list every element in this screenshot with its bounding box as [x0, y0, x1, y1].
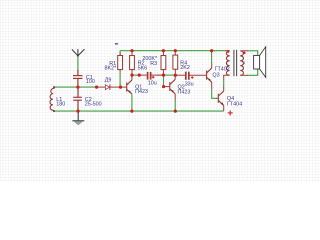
svg-text:1: 1: [243, 61, 245, 65]
svg-text:П423: П423: [135, 89, 148, 95]
svg-text:Д9: Д9: [105, 78, 112, 84]
svg-text:25-500: 25-500: [85, 101, 102, 107]
svg-text:5K6: 5K6: [138, 65, 148, 71]
svg-text:10u: 10u: [148, 81, 157, 87]
svg-text:1: 1: [226, 61, 228, 65]
svg-text:R3: R3: [150, 61, 157, 67]
svg-text:ГТ404: ГТ404: [227, 101, 242, 107]
svg-text:2K2: 2K2: [180, 65, 190, 71]
svg-text:33u: 33u: [185, 81, 194, 87]
svg-text:180: 180: [56, 102, 65, 108]
svg-text:П423: П423: [178, 90, 191, 96]
svg-text:Q3: Q3: [212, 72, 219, 78]
svg-text:100: 100: [86, 79, 95, 85]
svg-text:8K2*: 8K2*: [104, 65, 117, 71]
